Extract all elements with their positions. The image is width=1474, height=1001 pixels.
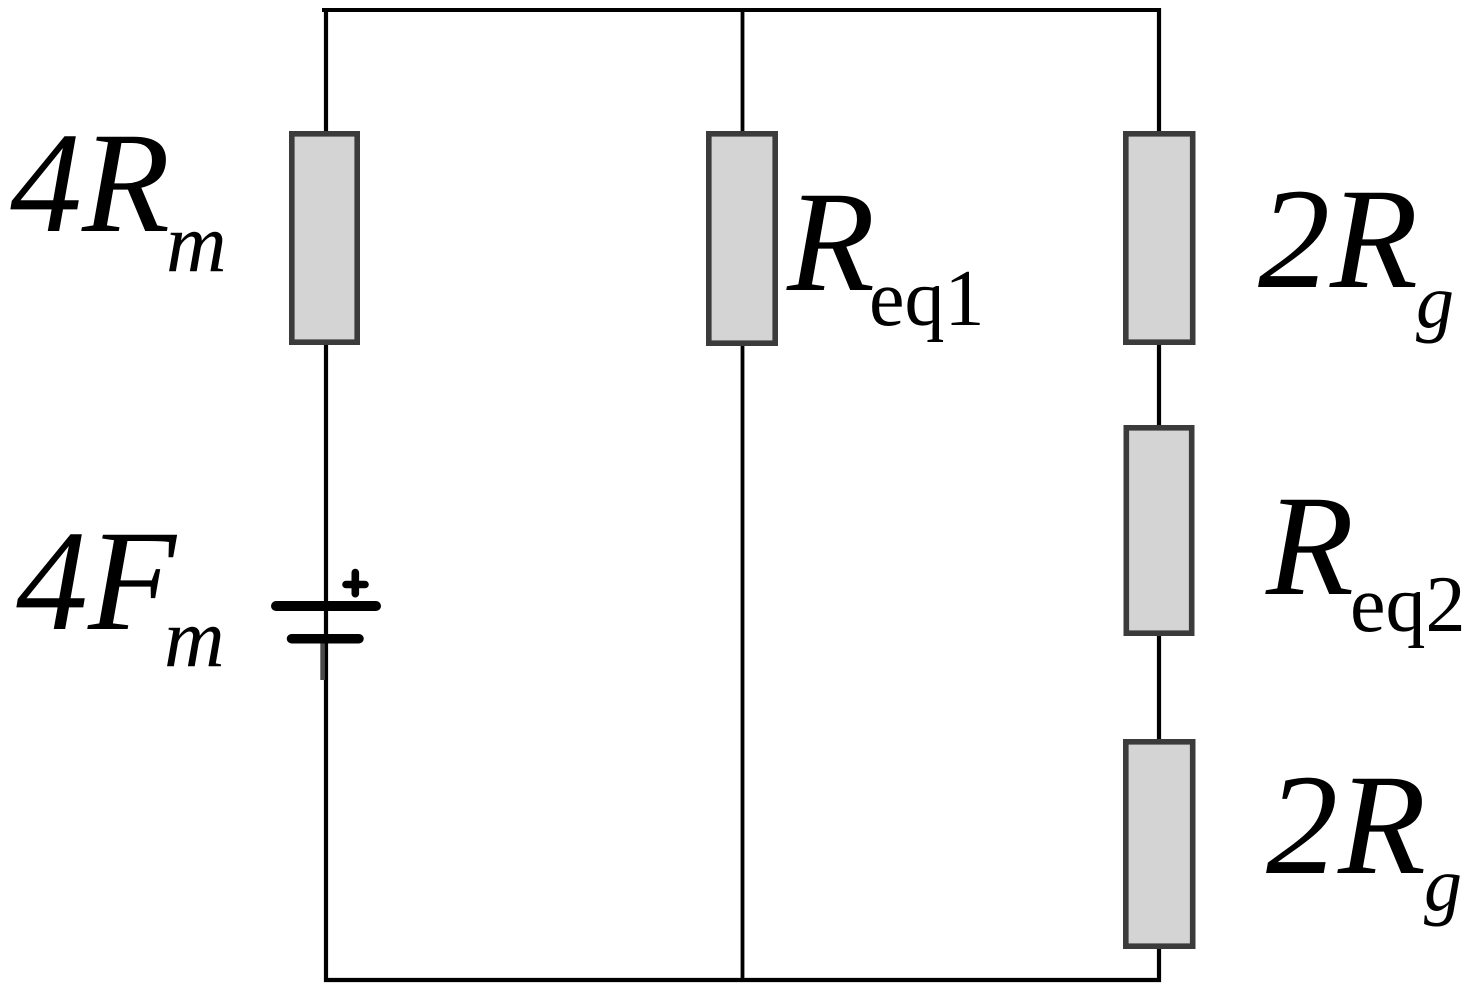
battery 4Fm plate negative short [292, 634, 360, 644]
wire right branch vertical [1157, 8, 1161, 982]
label Req2 [1265, 467, 1466, 649]
svg-text:eq1: eq1 [869, 255, 985, 343]
resistor 2Rg bottom [1126, 742, 1193, 946]
svg-text:eq2: eq2 [1350, 561, 1466, 649]
svg-text:4R: 4R [10, 104, 170, 263]
wire middle branch vertical [741, 8, 745, 982]
resistor 2Rg top [1126, 134, 1193, 342]
resistor Req1 [709, 134, 775, 343]
svg-text:R: R [1265, 467, 1354, 626]
svg-text:m: m [166, 197, 227, 290]
wire top rail [322, 8, 1161, 12]
svg-text:4F: 4F [16, 502, 178, 661]
label 2Rg top [1258, 160, 1454, 344]
wire left branch vertical [324, 8, 328, 982]
battery plus sign [346, 573, 365, 594]
svg-text:2R: 2R [1258, 160, 1418, 319]
svg-text:g: g [1416, 260, 1454, 344]
label 2Rg bottom [1266, 746, 1462, 927]
label Req1 [786, 163, 985, 343]
battery gray stub artifact [320, 644, 325, 681]
label 4Fm [16, 502, 225, 685]
svg-text:m: m [164, 592, 225, 685]
wire bottom rail [324, 978, 1161, 982]
resistor Req2 [1126, 428, 1191, 633]
resistor 4Rm [292, 134, 357, 342]
label 4Rm [10, 104, 227, 290]
svg-text:2R: 2R [1266, 746, 1426, 905]
svg-text:g: g [1424, 843, 1462, 927]
battery 4Fm plate positive long [276, 601, 376, 611]
svg-text:R: R [786, 163, 875, 322]
